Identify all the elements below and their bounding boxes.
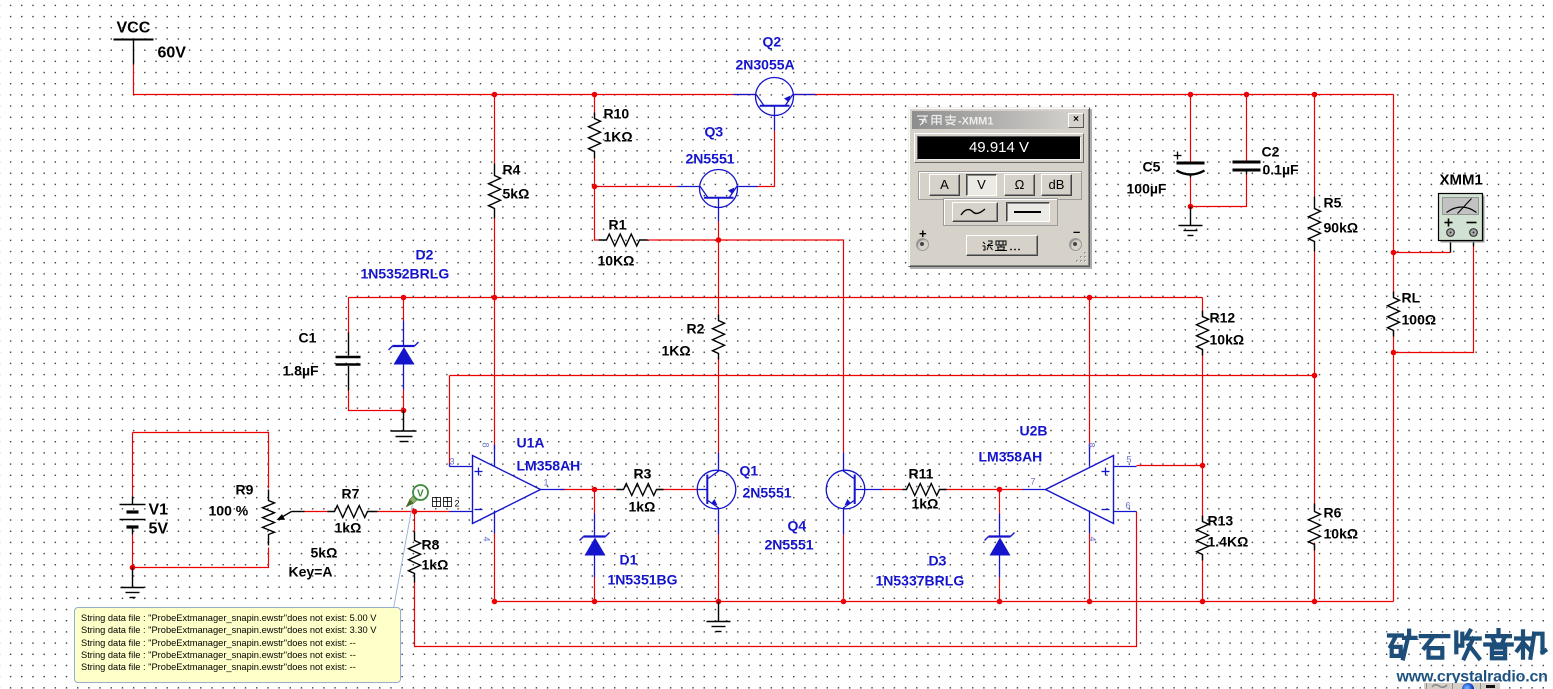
svg-text:-XMM1: -XMM1 (958, 116, 993, 128)
wire node 297 horizontal C1 to R12 (349, 297, 1203, 299)
wire node297 down to U2B pin8 (1089, 298, 1091, 450)
svg-text:4: 4 (482, 537, 492, 542)
svg-text:R13: R13 (1208, 513, 1234, 529)
svg-text:100 %: 100 % (209, 503, 249, 519)
label C2 value 0.1uF (1262, 144, 1300, 178)
junction R4 node297 (492, 295, 498, 301)
svg-text:R3: R3 (634, 466, 652, 482)
resistor R6 (1309, 504, 1321, 551)
multimeter dialog XMM1 (908, 107, 1090, 267)
transistor Q2 2N3055A (734, 78, 816, 131)
svg-text:R7: R7 (342, 486, 360, 502)
label C1 value 1.8uF (283, 330, 320, 379)
resistor RL (1388, 292, 1400, 337)
wire R11 right to node (944, 489, 1000, 491)
wire U1A output to R3 (561, 489, 617, 491)
value 60V (158, 45, 187, 62)
label R1 value 10KOhm (598, 217, 635, 269)
wire C5 bottom to ground node (1190, 178, 1192, 207)
watermark url www.crystalradio.cn (1396, 669, 1548, 686)
resistor R5 (1309, 197, 1321, 252)
op-amp U1A LM358AH (450, 445, 565, 534)
svg-text:3: 3 (450, 457, 455, 467)
button A (929, 174, 960, 196)
svg-text:6: 6 (1126, 501, 1131, 511)
junction C2 top (1244, 92, 1250, 98)
pin 8 U1A (481, 443, 491, 448)
svg-text:90kΩ: 90kΩ (1324, 220, 1359, 236)
button V pressed (966, 174, 997, 196)
svg-text:Q4: Q4 (788, 518, 807, 534)
dialog title bar (912, 111, 1086, 129)
wire U2B pin6 feedback down and left to R8 (415, 512, 1137, 647)
taskbar fragment bottom right (1424, 683, 1500, 689)
junction U2B supply node297 (1087, 295, 1093, 301)
pin 4 U2B (1088, 537, 1098, 542)
label R3 value 1kOhm (629, 466, 656, 515)
label R7 value 1kOhm (335, 486, 362, 536)
label R8 value 1kOhm (422, 537, 449, 573)
wire R2 bottom to Q1 collector (718, 359, 720, 453)
junction D2 top node297 (401, 295, 407, 301)
resistor R11 (903, 484, 947, 496)
wire C1 top lead (348, 298, 350, 334)
svg-text:1kΩ: 1kΩ (422, 557, 449, 573)
wire R3 right to Q1 base (658, 489, 698, 491)
wire U2B pin5 to divider node (1137, 465, 1203, 467)
pin 7 U2B (1031, 477, 1036, 487)
transistor Q1 2N5551 (697, 453, 736, 535)
junction RL bottom node (1391, 350, 1397, 356)
junction R10 bottom Q3 collector (592, 184, 598, 190)
resistor R1 (599, 234, 656, 246)
resistor R12 (1197, 311, 1209, 356)
junction R12 R13 pin5 node (1200, 463, 1206, 469)
svg-text:U2B: U2B (1020, 423, 1048, 439)
junction R4 top (492, 92, 498, 98)
wire RL rail down from top (1393, 95, 1395, 298)
svg-text:5: 5 (1127, 455, 1132, 465)
zener diode D2 1N5352BRLG (389, 321, 419, 390)
wire R10 junction to Q3 collector (595, 186, 678, 188)
svg-text:2N3055A: 2N3055A (736, 57, 795, 73)
junction XMM1 plus node (1391, 250, 1397, 256)
wire R10 bottom to R1 left (595, 193, 599, 241)
svg-text:1.4KΩ: 1.4KΩ (1208, 534, 1249, 550)
junction Q3 base node (716, 237, 722, 243)
junction probe node R7 R8 (412, 509, 418, 515)
resistor R4 (489, 164, 501, 219)
svg-text:5kΩ: 5kΩ (311, 545, 338, 561)
terminal plus jack (916, 238, 929, 251)
wire VCC top rail left segment (134, 65, 757, 95)
wire U1A pin4 to ground rail (494, 534, 496, 602)
wire XMM1 minus lead black (1473, 237, 1475, 247)
svg-text:10kΩ: 10kΩ (1210, 332, 1245, 348)
capacitor C1 (336, 333, 361, 391)
wire C2 bottom to C5 node (1191, 175, 1247, 207)
svg-text:R5: R5 (1324, 195, 1342, 211)
label D3 1N5337BRLG (876, 553, 965, 589)
button shezhi settings (966, 235, 1038, 256)
junction D1 ground rail (592, 599, 598, 605)
pin 5 U2B (1127, 455, 1132, 465)
label R4 value 5kOhm (503, 162, 530, 202)
wire R5 top lead (1314, 95, 1316, 197)
wire R4 bottom to node 297 (494, 219, 496, 298)
wire C1 bottom to ground node (349, 390, 404, 411)
wire ground rail (495, 601, 1394, 603)
label C5 value 100uF (1127, 159, 1167, 197)
button Ohm (1004, 174, 1035, 196)
junction D2 ground node (401, 408, 407, 414)
svg-text:1N5337BRLG: 1N5337BRLG (876, 573, 965, 589)
label minus terminal (1073, 224, 1080, 239)
svg-text:2: 2 (455, 499, 460, 509)
svg-text:R2: R2 (687, 321, 705, 337)
junction C5 C2 ground node (1188, 204, 1194, 210)
svg-text:XMM1: XMM1 (1440, 172, 1483, 189)
instrument icon XMM1 (1439, 194, 1485, 243)
wire R8 top lead (414, 512, 416, 532)
resistor R13 (1197, 516, 1209, 561)
wire R4 top lead (494, 95, 496, 164)
wire R5 bottom to node375 (1314, 252, 1316, 376)
resistor R8 (409, 532, 421, 583)
power VCC symbol (114, 40, 154, 65)
svg-text:100Ω: 100Ω (1402, 312, 1437, 328)
terminal minus jack (1069, 238, 1082, 251)
label XMM1 (1440, 172, 1483, 189)
svg-text:R8: R8 (422, 537, 440, 553)
junction R5 top (1312, 92, 1318, 98)
dialog resize grip (1074, 251, 1088, 265)
svg-text:5V: 5V (149, 521, 169, 538)
probe 探针2 voltage probe (394, 485, 429, 609)
svg-text:1: 1 (544, 478, 549, 488)
svg-text:D3: D3 (929, 553, 947, 569)
button DC pressed (1006, 202, 1050, 222)
capacitor C5 polarized (1174, 152, 1205, 178)
zener diode D3 1N5337BRLG (985, 514, 1015, 578)
junction D3 ground rail (997, 599, 1003, 605)
wire Q2 base to Q3 emitter (758, 131, 775, 187)
wire XMM1 plus terminal to RL rail (1394, 252, 1451, 254)
resistor R3 (617, 484, 664, 496)
svg-text:1kΩ: 1kΩ (629, 499, 656, 515)
svg-text:V1: V1 (149, 502, 169, 519)
resistor R2 (713, 315, 725, 360)
wire R6 bottom to ground rail (1314, 543, 1316, 602)
svg-text:R1: R1 (609, 217, 627, 233)
svg-text:C5: C5 (1143, 159, 1161, 175)
label R13 value 1.4KOhm (1208, 513, 1249, 550)
dialog mode group box (918, 171, 1082, 200)
svg-text:R9: R9 (236, 482, 254, 498)
junction V1 ground node (130, 565, 136, 571)
svg-text:8: 8 (1087, 443, 1097, 448)
svg-text:VCC: VCC (117, 20, 151, 37)
label R2 value 1KOhm (662, 321, 705, 359)
wire D1 top lead (594, 490, 596, 514)
ground below C5 (1179, 207, 1203, 236)
label R6 value 10kOhm (1324, 505, 1359, 542)
svg-text:R10: R10 (604, 106, 630, 122)
ground below Q1 emitter rail (707, 602, 731, 632)
wire R1 right to Q3 base node (656, 239, 719, 241)
label D1 1N5351BG (608, 552, 678, 588)
wire node to U2B pin7 (1000, 489, 1023, 491)
zener diode D1 1N5351BG (580, 514, 610, 578)
svg-text:R11: R11 (909, 466, 934, 482)
svg-text:10KΩ: 10KΩ (598, 253, 635, 269)
label VCC (117, 20, 151, 37)
svg-text:C2: C2 (1262, 144, 1280, 160)
wire node 297 down to U1A pin8 (494, 298, 496, 450)
wire V1 bottom to ground node (132, 535, 134, 568)
junction U1A pin4 ground rail (492, 599, 498, 605)
svg-text:1kΩ: 1kΩ (912, 496, 939, 512)
label R5 value 90kOhm (1324, 195, 1359, 236)
wire R6 top lead (1314, 376, 1316, 510)
wire R13 top lead (1202, 466, 1204, 522)
label D2 1N5352BRLG (361, 247, 450, 282)
svg-text:100µF: 100µF (1127, 181, 1167, 197)
label R10 value 1KOhm (604, 106, 633, 145)
svg-text:LM358AH: LM358AH (517, 458, 581, 474)
label R9 pot 100% 5kOhm Key=A (209, 482, 338, 580)
pin 4 U1A (482, 537, 492, 542)
wire Q4 emitter to ground rail (843, 535, 845, 602)
label Q2 2N3055A (736, 34, 795, 73)
label U2B LM358AH (979, 423, 1048, 465)
wire node to Q4 collector rail (719, 240, 844, 453)
transistor Q3 2N5551 (678, 170, 758, 222)
svg-text:2N5551: 2N5551 (743, 485, 792, 501)
label Q1 2N5551 (740, 463, 792, 501)
svg-text:0.1µF: 0.1µF (1263, 162, 1300, 178)
label Q4 2N5551 (765, 518, 814, 553)
svg-text:R4: R4 (503, 162, 521, 178)
wire R7 right to probe node (378, 511, 450, 513)
svg-text:4: 4 (1088, 537, 1098, 542)
label Q3 2N5551 (686, 124, 735, 167)
wire D1 bottom lead (594, 578, 596, 602)
wire R9 wiper to R7 (304, 511, 328, 513)
wire Q1 emitter to ground rail (718, 535, 720, 602)
svg-text:D1: D1 (620, 552, 638, 568)
svg-text:2N5551: 2N5551 (686, 151, 735, 167)
junction U1A output D1 node (592, 487, 598, 493)
wire R10 top lead (594, 95, 596, 117)
svg-text:1KΩ: 1KΩ (604, 129, 633, 145)
svg-text:RL: RL (1402, 290, 1421, 306)
wire C2 top lead (1246, 95, 1248, 161)
svg-text:1KΩ: 1KΩ (662, 343, 691, 359)
label probe tanzhen2 (433, 498, 460, 509)
junction R13 ground rail (1200, 599, 1206, 605)
label RL value 100Ohm (1402, 290, 1437, 328)
wire XMM1 plus lead black (1450, 237, 1452, 253)
wire D2 top lead (403, 298, 405, 321)
op-amp U2B LM358AH mirrored (1023, 445, 1137, 534)
battery V1 (120, 497, 146, 535)
svg-text:8: 8 (481, 443, 491, 448)
svg-text:U1A: U1A (517, 435, 545, 451)
svg-text:5kΩ: 5kΩ (503, 186, 530, 202)
label plus terminal (919, 226, 927, 241)
wire Q3 base down to node (718, 222, 720, 241)
wire D2 bottom to ground node (403, 390, 405, 411)
button dB (1041, 174, 1072, 196)
junction Q4 emitter ground rail (841, 599, 847, 605)
watermark 矿石收音机 crystalradio logo (1389, 630, 1545, 658)
wire C5 top lead (1190, 95, 1192, 162)
wire XMM1 minus terminal down to RL bottom (1394, 247, 1474, 353)
junction R10 top (592, 92, 598, 98)
junction R11 D3 U2B node (997, 487, 1003, 493)
pin 1 U1A (544, 478, 549, 488)
svg-text:1N5351BG: 1N5351BG (608, 572, 678, 588)
svg-text:1N5352BRLG: 1N5352BRLG (361, 266, 450, 282)
svg-text:Q1: Q1 (740, 463, 759, 479)
svg-text:Q3: Q3 (705, 124, 724, 140)
label R11 value 1kOhm (909, 466, 939, 512)
svg-text:1kΩ: 1kΩ (335, 520, 362, 536)
dialog waveform group box (943, 198, 1058, 226)
pin 8 U2B (1087, 443, 1097, 448)
svg-text:R6: R6 (1324, 505, 1342, 521)
close button (1068, 113, 1084, 128)
svg-text:LM358AH: LM358AH (979, 449, 1043, 465)
label R12 value 10kOhm (1210, 310, 1245, 348)
wire U2B pin4 to ground rail (1089, 534, 1091, 602)
transistor Q4 2N5551 mirrored (826, 453, 881, 535)
potentiometer R9 (263, 490, 305, 546)
svg-text:7: 7 (1031, 477, 1036, 487)
label V1 value 5V (149, 502, 169, 538)
pin 6 U2B (1126, 501, 1131, 511)
capacitor C2 (1233, 162, 1261, 175)
junction R5 R6 node375 (1312, 373, 1318, 379)
button AC sine (952, 202, 998, 222)
junction Q1 emitter ground rail (716, 599, 722, 605)
tooltip probe data box (74, 607, 401, 683)
junction R6 ground rail (1312, 599, 1318, 605)
svg-text:R12: R12 (1210, 310, 1236, 326)
ground below D2 C1 (391, 411, 417, 442)
svg-text:V: V (417, 489, 424, 500)
junction U2B pin4 ground rail (1087, 599, 1093, 605)
junction C5 top (1188, 92, 1194, 98)
wire node375 down to U1A pin3 (449, 376, 451, 464)
svg-text:60V: 60V (158, 45, 187, 62)
wire RL bottom rail to ground rail (1393, 331, 1395, 602)
wire V1 top lead (132, 433, 134, 497)
wire feedback node375 horizontal (450, 375, 1315, 377)
svg-text:D2: D2 (416, 247, 434, 263)
wire V1 R9 loop top (133, 433, 269, 489)
svg-text:10kΩ: 10kΩ (1324, 526, 1359, 542)
wire R2 top lead (718, 240, 720, 316)
svg-text:Q2: Q2 (763, 34, 782, 50)
wire D3 bottom lead (999, 578, 1001, 602)
wire Q4 base to R11 (882, 489, 903, 491)
resistor R10 (589, 113, 601, 193)
svg-text:1.8µF: 1.8µF (283, 363, 320, 379)
label U1A LM358AH (517, 435, 581, 474)
wire R13 bottom to ground rail (1202, 555, 1204, 602)
pin 3 U1A (450, 457, 455, 467)
wire top rail right segment to RL (793, 94, 1394, 96)
svg-text:C1: C1 (299, 330, 317, 346)
svg-text:Key=A: Key=A (289, 564, 333, 580)
wire R12 top from node297 (1202, 298, 1204, 317)
wire R12 bottom to pin5 node (1202, 350, 1204, 466)
dialog display 49.914 V (914, 133, 1084, 163)
ground below V1 (121, 568, 145, 598)
wire ground node to R9 bottom (133, 548, 269, 568)
svg-text:2N5551: 2N5551 (765, 537, 814, 553)
resistor R7 (328, 506, 378, 518)
wire D3 top lead (999, 490, 1001, 514)
